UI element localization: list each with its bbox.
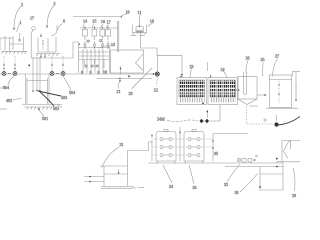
- label19 arrow: [121, 14, 127, 17]
- label 31 leader: [102, 147, 120, 168]
- tank16: [100, 30, 105, 37]
- filter tank 34: [184, 130, 204, 164]
- filter tank 33: [156, 130, 176, 164]
- pipe between units: [206, 62, 208, 71]
- svg-text:804: 804: [3, 85, 9, 90]
- label 23 leader: [190, 68, 192, 78]
- dosing tanks 14-17: [73, 17, 120, 50]
- svg-text:503: 503: [61, 95, 67, 100]
- hatch under T2: [37, 54, 59, 57]
- label 501 arrow: [38, 108, 44, 116]
- pump pair B: [50, 72, 65, 76]
- svg-text:13: 13: [111, 42, 115, 47]
- leaders 26 25 27: [246, 61, 248, 74]
- svg-text:23: 23: [190, 64, 194, 69]
- svg-text:16: 16: [101, 19, 105, 24]
- label 402 leader: [13, 98, 22, 100]
- leaders 503 502: [38, 91, 61, 96]
- tank 11 jacketed: [131, 18, 147, 36]
- svg-text:12: 12: [87, 39, 91, 43]
- dashed risers B: [51, 56, 53, 71]
- label 2b leader: [47, 5, 55, 28]
- junction dot: [29, 65, 31, 67]
- pump pair A: [2, 72, 17, 76]
- label 18 leader: [148, 23, 153, 27]
- transfer pipe to dosing area: [31, 42, 109, 58]
- label 2 leader: [14, 6, 22, 30]
- svg-text:29: 29: [292, 193, 296, 198]
- pipe tank11 down to pump22: [141, 33, 158, 56]
- label 1 leader: [17, 23, 20, 32]
- svg-text:19: 19: [126, 10, 130, 15]
- label13 leader: [98, 45, 112, 48]
- svg-text:9: 9: [98, 70, 100, 75]
- svg-text:30: 30: [235, 190, 239, 195]
- clarifier tank 13: [111, 50, 144, 73]
- curved pipe into T2: [52, 25, 58, 36]
- svg-text:32: 32: [224, 182, 228, 187]
- membrane unit 23: [177, 74, 207, 105]
- outfall tank 29: [276, 141, 300, 162]
- svg-text:9: 9: [90, 70, 92, 75]
- svg-text:8: 8: [81, 70, 83, 75]
- riser to label 21: [120, 66, 122, 75]
- svg-text:18: 18: [150, 19, 154, 24]
- svg-text:27: 27: [275, 54, 279, 59]
- dashed risers A: [3, 56, 5, 71]
- dark curve out: [278, 117, 300, 126]
- membrane unit 24: [208, 74, 238, 105]
- svg-text:1: 1: [20, 20, 22, 25]
- svg-text:24: 24: [221, 67, 225, 72]
- feed pipe into T1: [19, 33, 21, 42]
- svg-text:14: 14: [83, 19, 87, 24]
- svg-text:25: 25: [261, 57, 265, 62]
- label 17 circle: [32, 27, 36, 31]
- channel 31: [84, 142, 153, 189]
- svg-text:24M: 24M: [157, 117, 165, 122]
- leaders 34 33: [163, 165, 172, 183]
- main process line: [0, 73, 154, 75]
- tank15: [92, 30, 97, 37]
- bottom right assembly 32: [237, 155, 257, 162]
- inlet arrow T2: [40, 33, 42, 37]
- svg-text:35: 35: [214, 151, 218, 156]
- svg-text:402: 402: [6, 98, 12, 103]
- outlet pipe right: [292, 71, 300, 73]
- label 804 leader: [8, 76, 14, 85]
- pump 22: [146, 72, 159, 76]
- svg-text:2: 2: [54, 1, 56, 6]
- svg-text:17: 17: [107, 20, 111, 25]
- ground line mid: [148, 162, 282, 164]
- svg-text:20: 20: [129, 91, 133, 96]
- ground line right: [225, 166, 283, 168]
- tank T1 far left: [0, 36, 27, 51]
- svg-text:12: 12: [99, 39, 103, 43]
- hatch under T1: [2, 51, 27, 54]
- svg-text:502: 502: [53, 106, 59, 111]
- label 29 leader: [293, 168, 295, 191]
- label 30 leader: [240, 173, 258, 192]
- svg-text:22: 22: [154, 88, 158, 93]
- label 11 leader: [139, 15, 140, 18]
- mid-bottom pump pair: [167, 102, 220, 123]
- label 20 leader: [132, 68, 153, 89]
- tank17: [106, 30, 111, 37]
- svg-text:11: 11: [84, 63, 89, 68]
- svg-text:2: 2: [21, 2, 23, 7]
- sludge pump: [274, 115, 278, 127]
- feed pipes filters: [151, 127, 248, 161]
- loop pump22 to unit A: [157, 56, 182, 77]
- settling tank below: [22, 57, 62, 110]
- double standpipe to basin: [117, 21, 118, 52]
- svg-text:11: 11: [138, 10, 142, 15]
- svg-text:33: 33: [193, 185, 197, 190]
- pipe rectangle bottom right: [259, 162, 283, 190]
- svg-text:10: 10: [103, 70, 107, 75]
- svg-text:31: 31: [120, 142, 124, 147]
- svg-text:15: 15: [92, 19, 96, 24]
- svg-text:501: 501: [42, 116, 48, 121]
- label 6 leader: [57, 24, 63, 31]
- tank 27: [266, 75, 298, 108]
- tank14: [83, 30, 88, 37]
- svg-text:21: 21: [117, 89, 121, 94]
- svg-text:504: 504: [69, 90, 75, 95]
- svg-text:17: 17: [30, 16, 34, 21]
- label 22 leader: [156, 77, 159, 87]
- clarifier 26: [236, 72, 267, 106]
- svg-text:34: 34: [169, 184, 173, 189]
- label 504 leader: [63, 76, 71, 90]
- label 24 leader: [223, 71, 227, 78]
- svg-text:6: 6: [63, 19, 65, 24]
- sludge dashed line: [246, 106, 248, 124]
- reaction basin 8/9/10: [79, 42, 110, 73]
- tank T2 mixer: [36, 37, 60, 54]
- label 32 leader: [227, 164, 240, 182]
- svg-text:26: 26: [246, 56, 250, 61]
